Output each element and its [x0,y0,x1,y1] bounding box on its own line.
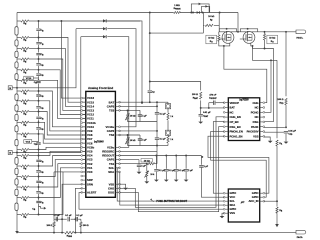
svg-text:0.1 μF: 0.1 μF [160,113,167,115]
wire AFE CHG to CHG_EN [120,117,225,208]
capacitor C SRP [56,217,57,221]
capacitor C CAP2 [155,137,159,140]
wire CAP2 [120,130,158,132]
diode D3 [103,35,106,38]
pin CHG (bq76200) [260,102,263,104]
wire BAT branch lower [149,81,151,83]
ground [154,180,159,182]
wire TS2 [120,134,141,136]
resistor 100 SRN [80,219,82,221]
svg-text:1 μF: 1 μF [142,140,147,142]
svg-text:CHG_EN: CHG_EN [230,115,241,119]
capacitor C reg [184,170,188,171]
pin VC5u [115,146,118,148]
resistor RB tap 8 [21,110,29,112]
wire tap 13 to AFE [39,156,86,167]
wire FET bus [219,31,296,33]
svg-text:0.1 μF: 0.1 μF [160,139,167,141]
resistor RB tap 15 [21,186,29,188]
pin CHG_EN [225,116,228,118]
label VC5 [24,140,32,144]
svg-text:NC: NC [255,106,259,110]
pin VC3 [83,159,86,161]
wire SDA [120,172,225,205]
terminal PACK+ [285,31,287,33]
thermistor RT3 [127,114,129,120]
wire loop inner [202,6,210,12]
wire tap 14 to AFE [39,160,86,177]
capacitor C CAP3 [155,112,159,115]
capacitor CB 7 [36,106,40,109]
diode D2 [103,27,106,30]
resistor RB tap 3 [21,58,29,60]
pin MCU GPIO [225,208,228,210]
svg-text:RSNS: RSNS [67,236,73,239]
wire bottom rail right [74,232,300,234]
ground [174,180,179,182]
pin VSS (bq76200) [260,135,263,137]
ground [284,142,289,144]
resistor RB tap 13 [21,165,29,167]
pin TS2 [115,134,118,136]
wire PACK+ sense [285,32,287,96]
wire BAT branch upper [149,32,151,34]
svg-text:SRN: SRN [87,182,93,186]
wire to PCHG pin [264,60,271,112]
wire VC5B to diode row [17,37,81,153]
wire B1 [13,87,17,89]
svg-text:PACK-: PACK- [297,236,304,239]
wire tap 9 to AFE [39,122,86,139]
wire chainB top [157,101,168,103]
resistor 100 SRP [53,219,55,221]
pin MCU SDA [225,204,228,206]
wire REGOUT [120,155,202,157]
wire top rail BAT+ [17,12,238,14]
svg-text:PMON_EN: PMON_EN [230,130,243,134]
svg-text:10 kΩ: 10 kΩ [130,115,136,117]
node tap 6 [38,90,40,92]
pin VC4 [83,155,86,157]
wire RG2 bottom [253,48,265,50]
svg-text:VSS: VSS [253,134,259,138]
battery cell 9 [15,105,18,111]
wire ADC divider [276,60,278,138]
resistor RB tap 12 [21,154,29,156]
pin MCU GPIO right [260,192,263,194]
wire CAP3 [120,105,158,107]
node BAT bq76200 [200,107,202,109]
svg-text:bq76200: bq76200 [239,100,249,102]
pin CHG [115,187,118,189]
pin VC10u [115,126,118,128]
capacitor C BAT filt [148,91,152,92]
wire cap column [38,21,40,215]
svg-text:0.01 μF: 0.01 μF [203,112,211,114]
pin VC9 [83,130,86,132]
wire tap 16 to AFE [39,168,86,198]
pin TS3 [115,109,118,111]
svg-text:SCL: SCL [230,199,236,203]
pin SRP [83,179,86,181]
ground [184,180,189,182]
svg-text:10 kΩ: 10 kΩ [130,140,136,142]
capacitor CB 9 [36,127,40,130]
wire FET2 source [251,43,253,46]
svg-text:SDA: SDA [108,170,114,174]
wire FET2 source net [253,46,278,60]
wire ADC_IN [264,200,277,202]
pin NC [225,111,228,113]
pin MCU VSS [225,212,228,214]
svg-text:RPD: RPD [279,102,284,105]
resistor RB tap 16 [21,196,29,198]
capacitor C reg [164,170,168,171]
svg-text:1 μF: 1 μF [142,116,147,118]
node tap 16 [38,197,40,199]
ground [198,122,203,124]
svg-text:SDA: SDA [230,203,236,207]
connector B1 [8,86,12,90]
svg-text:10 kΩ: 10 kΩ [208,38,214,40]
resistor R TS1 10k [147,163,154,165]
svg-text:GPIO: GPIO [252,195,259,199]
pin VC13 [83,109,86,111]
wire bottom rail left [17,232,64,234]
svg-text:GPIO: GPIO [230,207,237,211]
node tap 10 [38,133,40,135]
svg-text:10 kΩ: 10 kΩ [208,16,214,18]
node tap 15 [38,186,40,188]
svg-text:RPMON: RPMON [174,8,182,11]
svg-text:10 kΩ: 10 kΩ [269,38,275,40]
wire VC10B to diode row [17,29,76,88]
wire tap 17 to AFE [39,172,86,215]
wire BAT vertical [149,13,151,91]
node rail [190,12,192,14]
wire tap 0 to AFE [39,20,141,22]
svg-text:100 Ω: 100 Ω [277,99,283,101]
wire TS3 [120,109,141,111]
wire diode row 0 [107,21,142,102]
transistor Q2 [166,130,171,135]
capacitor CB 15 [36,200,40,203]
ground [268,141,273,143]
node tap 0 [38,20,40,22]
pin SDA [115,171,118,173]
resistor RB tap 2 [21,47,29,49]
pin MCU ADC_IN right [260,200,263,202]
svg-text:CVDDCP: CVDDCP [209,98,218,101]
node tap 4 [38,69,40,71]
wire VCC rail [201,168,224,198]
svg-text:DSG: DSG [108,191,114,195]
wire diode row 2 [81,36,104,38]
capacitor CB 13 [36,180,40,183]
wire tap 7 to AFE [39,101,86,131]
svg-text:PCHG: PCHG [251,110,259,114]
svg-text:NC: NC [230,110,234,114]
pin TS1 [115,163,118,165]
wire tap 12 to AFE [39,151,86,155]
pin SRN [83,183,86,185]
node tap 5 [38,79,40,81]
diode D1 [103,19,106,22]
wire B2 [13,152,17,154]
wire SRP [62,184,82,232]
wire rail to FET drains [237,13,239,32]
svg-text:CHG: CHG [253,101,259,105]
pin PACKDIV (bq76200) [260,131,263,133]
op-amp U1 bq76940 AFE box [86,91,116,197]
wire RG1 to source [219,41,224,46]
pin VC16 [83,97,86,99]
battery cell 8 [15,114,18,120]
wire FET2 lid [240,29,257,32]
pin DSG [115,191,118,193]
ground [137,172,142,174]
pin VC8 [83,134,86,136]
wire PCHG_EN route [208,136,269,193]
wire REGSRC riser [156,102,158,151]
svg-text:ADC_IN: ADC_IN [248,199,258,203]
pin PCHG (bq76200) [260,111,263,113]
svg-text:VC10: VC10 [26,78,32,80]
node tap 17 [38,214,40,216]
pin BAT [115,101,118,103]
svg-text:100 Ω: 100 Ω [192,94,198,96]
pin MCU VCC [225,196,228,198]
resistor RB tap 6 [21,90,29,92]
capacitor C reg [174,170,178,171]
svg-text:0.1 μF: 0.1 μF [65,215,72,217]
wire DSG gate route [264,49,274,122]
battery cell 12 [15,62,18,68]
wire VC5 label [32,140,39,142]
svg-text:PACK: PACK [251,125,258,129]
wire FET1 lid [219,29,236,32]
wire tap 4 to AFE [39,70,86,115]
capacitor CB 12 [36,170,40,173]
pin [83,175,86,177]
resistor R BAT 100 [200,92,202,99]
pin VC14 [83,105,86,107]
pin VC11 [83,118,86,120]
pin VC6 [83,142,86,144]
battery cell 4 [15,168,18,174]
wire PMON_EN route [211,131,267,197]
resistor RB tap 0 [21,20,29,22]
capacitor CB 1 [36,42,40,45]
wire VC0 spur [39,207,44,209]
capacitor CB 8 [36,116,40,119]
svg-text:VDDCP: VDDCP [230,101,240,105]
label VC10 [24,76,33,80]
resistor RB tap 14 [21,175,29,177]
wire tap 15 to AFE [39,164,86,187]
pin VC5b [83,146,86,148]
capacitor C SR diff [68,217,69,221]
capacitor C PACKDIV [284,132,288,133]
svg-text:DSG_EN: DSG_EN [230,125,241,129]
wire tap 5 to AFE [39,80,86,118]
svg-text:TS3: TS3 [109,109,115,113]
svg-text:GPIO: GPIO [230,191,237,195]
pin PCHG_EN [225,135,228,137]
wire VCC [201,156,203,158]
wire RP box [202,13,204,34]
svg-text:DSG: DSG [253,120,259,124]
arrow loop outer [199,3,202,6]
pin DSG_EN [225,126,228,128]
pin VC10b [83,122,86,124]
svg-text:ALERT: ALERT [87,191,97,195]
svg-text:0.1 μF: 0.1 μF [54,215,61,217]
svg-text:RBAT: RBAT [193,97,199,100]
svg-text:PUSH-BUTTON FOR BOOT: PUSH-BUTTON FOR BOOT [156,200,187,203]
arrow ADC gnd [275,224,279,227]
svg-text:BAT: BAT [230,106,236,110]
capacitor C CAP1 [137,165,141,166]
transistor Q3 CHG FET [222,32,234,44]
wire MCU VSS [222,213,224,216]
wire stack [16,21,18,27]
capacitor CB 4 [36,73,40,76]
capacitor CB 2 [36,53,40,56]
resistor RB tap 1 [21,36,29,38]
wire stack top [16,13,18,22]
pin MCU SCL [225,200,228,202]
transistor Q4 DSG FET [243,32,255,44]
wire bq76200 VSS [264,137,270,141]
pin VSS [115,183,118,185]
pin CAP3 [115,105,118,107]
svg-text:PACKDIV: PACKDIV [247,130,259,134]
battery cell 1 [15,203,18,211]
thermistor RT2 [127,138,129,144]
wire TS1 pullup [155,163,157,165]
resistor RG2 [264,31,266,33]
battery cell 10 [15,94,18,100]
resistor R ADC low [276,201,278,206]
transistor Q1 [166,104,171,109]
capacitor CB 11 [36,159,40,162]
arrow VC0 spur [44,207,46,210]
resistor 100 PACK [285,98,287,104]
wire stack bottom to PACK- rail [16,215,18,232]
capacitor CB 6 [36,94,40,97]
node tap 1 [38,37,40,39]
resistor RB tap 5 [21,79,29,81]
capacitor C TS2 [139,135,141,139]
wire TS3 return [128,121,158,123]
wire loop outer [191,4,209,13]
svg-text:VC0: VC0 [87,170,93,174]
wire AFE DSG to DSG_EN [120,127,225,212]
pin PACK (bq76200) [260,126,263,128]
wire filter chain [54,218,62,220]
svg-text:μC: μC [240,200,245,204]
wire VC0 drop [54,171,63,173]
capacitor CB 14 [36,191,40,194]
resistor RB tap 17 [21,213,29,215]
wire tap 8 to AFE [39,112,86,136]
wire tap 11 to AFE [39,147,86,149]
connector B2 [8,151,12,155]
resistor RP [205,24,213,26]
node tap 3 [38,58,40,60]
wire ALERT route [79,192,224,209]
wire SCL [117,168,224,201]
resistor R chainB2 [167,134,169,137]
svg-text:VSS: VSS [230,211,236,215]
capacitor C VDDCP 470nF [216,102,225,104]
arrow loop inner [205,5,208,8]
pin VC2 [83,163,86,165]
node tap 8 [38,111,40,113]
ground [144,181,149,183]
resistor RG1 [218,32,220,35]
capacitor C SRN [76,217,77,221]
pin REGSRC [115,150,118,152]
resistor Rsns [65,231,74,234]
node tap 2 [38,47,40,49]
pin SCL [115,167,118,169]
resistor 1M RPMON [173,11,180,14]
battery cell 14 [15,40,18,46]
wire VDDCP to BAT node [208,103,210,108]
svg-text:PACK+: PACK+ [296,36,304,39]
resistor RB tap 11 [21,148,29,150]
TVS D4 [197,11,200,14]
pin DSG (bq76200) [260,121,263,123]
wire CP_EN route [213,122,224,194]
wire tap 3 to AFE [39,59,86,110]
pin CP_EN [225,121,228,123]
wire TS2 return [128,145,158,147]
switch pushbutton [151,199,154,202]
wire BAT to bq76200 [201,107,225,109]
node tap 9 [38,121,40,123]
svg-text:470 nF: 470 nF [209,94,217,97]
pin BAT [225,107,228,109]
wire tap 2 to AFE [39,48,86,106]
wire tap 6 to AFE [39,91,86,127]
node tap 14 [38,176,40,178]
svg-text:TS2: TS2 [109,133,115,137]
svg-text:0.1 μF: 0.1 μF [76,215,83,217]
resistor RB tap 10 [21,133,29,135]
wire AFE VSS [120,184,126,188]
svg-text:100 Ω: 100 Ω [46,225,52,227]
wire tap 1 to AFE [39,38,86,103]
wire tap 10 to AFE [39,134,86,143]
op-amp U2 bq76200 box [228,98,259,141]
node tap 7 [38,100,40,102]
battery cell 6 [15,140,18,146]
battery cell 13 [15,51,18,57]
capacitor CB 5 [36,80,40,83]
battery cell 7 [15,126,18,132]
capacitor C reg [199,166,203,168]
pin VDDCP [225,102,228,104]
pin [83,187,86,189]
svg-text:1 MΩ: 1 MΩ [174,5,180,7]
battery cell 5 [15,157,18,164]
pin NC (bq76200) [260,116,263,118]
svg-text:bq76940: bq76940 [94,141,104,144]
svg-text:Analog Front End: Analog Front End [88,86,113,90]
